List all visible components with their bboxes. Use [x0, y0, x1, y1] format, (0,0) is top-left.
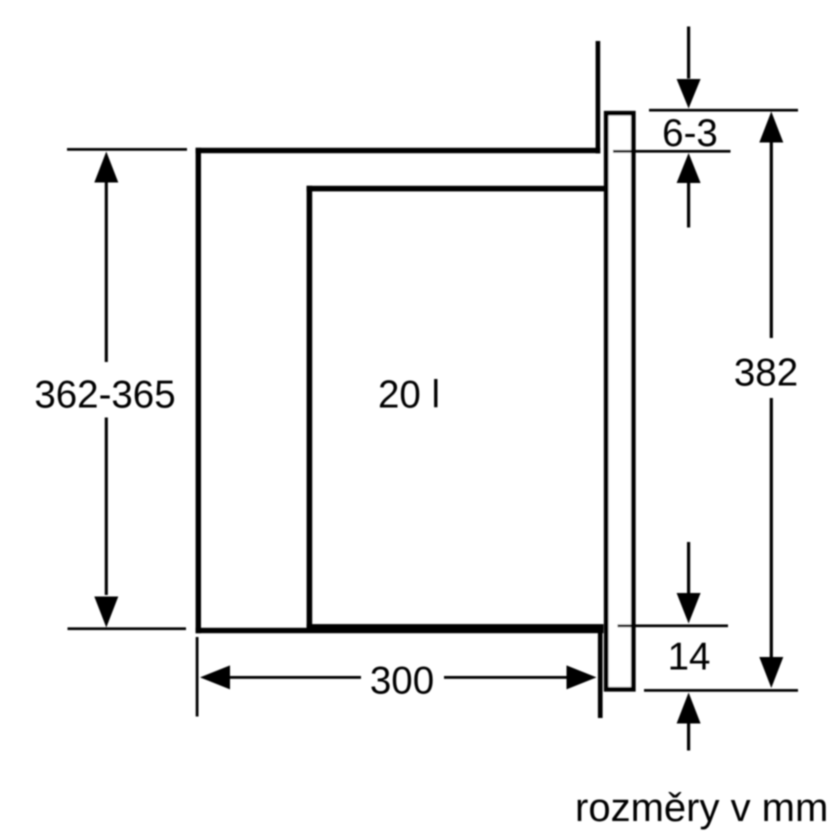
svg-text:6-3: 6-3 — [662, 112, 718, 155]
tick top-right shared 6-3/382 — [649, 109, 798, 112]
door panel — [606, 113, 633, 689]
dim 382 line lower — [770, 398, 773, 658]
dim 6-3 arrow down — [677, 79, 701, 109]
dim 300 line left — [230, 676, 362, 679]
niche outer box top edge — [196, 148, 601, 153]
svg-text:20 l: 20 l — [378, 374, 440, 417]
dim 382 arrow down — [759, 657, 783, 688]
dim 362-365 arrow down — [94, 597, 118, 628]
wall front extension bottom — [598, 629, 603, 718]
dim 300 arrow left — [200, 665, 230, 689]
dim 300 line right — [444, 676, 567, 679]
dim 300 arrow right — [567, 665, 597, 689]
cavity inner box left edge — [307, 186, 313, 630]
niche outer box bottom edge — [196, 628, 604, 633]
tick 6-3 lower — [613, 150, 731, 153]
tick 362-365 top — [67, 148, 187, 151]
niche outer box left edge — [196, 148, 201, 633]
svg-text:300: 300 — [370, 660, 434, 703]
dim 382 line upper — [770, 142, 773, 338]
svg-text:382: 382 — [734, 352, 798, 395]
dim 14 upper line — [687, 542, 690, 593]
dim 300 left extension line — [196, 637, 199, 717]
svg-text:14: 14 — [668, 636, 711, 679]
svg-text:362-365: 362-365 — [34, 374, 175, 417]
svg-text:rozměry v mm: rozměry v mm — [575, 786, 828, 830]
dim 6-3 lower line — [687, 183, 690, 228]
cavity inner box bottom edge — [307, 624, 604, 630]
dim 14 arrow up — [677, 693, 701, 724]
dim 362-365 line upper — [105, 182, 108, 362]
tick bottom-right shared 14/382 — [644, 689, 798, 692]
dim 382 arrow up — [759, 112, 783, 143]
dim 6-3 arrow up — [677, 153, 701, 183]
dim 362-365 arrow up — [94, 152, 118, 183]
dim 14 arrow down — [677, 593, 701, 624]
dim 362-365 line lower — [105, 418, 108, 596]
tick 14 upper — [618, 624, 729, 627]
dim 14 lower line — [687, 723, 690, 751]
wall front line top — [596, 41, 601, 153]
tick 362-365 bottom — [68, 627, 187, 630]
dim 6-3 upper line — [687, 27, 690, 79]
cavity inner box top edge — [307, 186, 604, 192]
